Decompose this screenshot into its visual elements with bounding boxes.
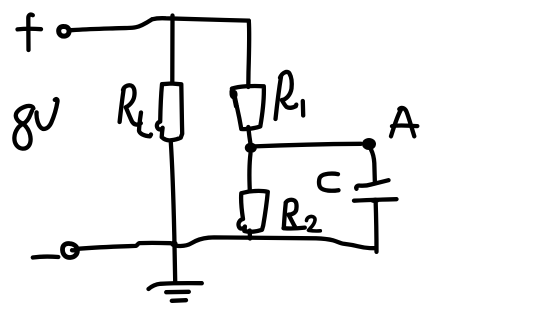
resistor R2 (box) (239, 191, 268, 232)
ground symbol (149, 283, 202, 301)
label R2 (284, 200, 321, 231)
junction: bottom rail crosses ground stem (170, 240, 177, 247)
label 8V (14, 99, 57, 149)
wire: capacitor to bottom corner (373, 200, 378, 252)
label R1 (276, 72, 304, 119)
positive terminal (open circle) (59, 26, 69, 36)
wire: top rail down to R_L (170, 16, 174, 84)
negative terminal (open loop) (62, 244, 77, 258)
wire: junction to node A (251, 144, 361, 147)
label A (391, 108, 417, 136)
wire: R1 to junction (248, 127, 251, 146)
label + (positive terminal sign) (18, 15, 42, 50)
wire: R_L bottom to bottom rail and ground stem (171, 141, 176, 282)
wire: junction down to R2 (249, 154, 250, 191)
wire: top rail corner down to R1 (246, 21, 251, 87)
resistor R1 (box) (232, 86, 264, 129)
wire: bottom rail (78, 237, 377, 248)
wire: node A down to capacitor (371, 150, 375, 184)
wire stub left of negative terminal (33, 254, 59, 259)
label C (319, 174, 339, 191)
resistor R_L (box) (157, 84, 182, 141)
wire: R2 to bottom rail (248, 231, 253, 239)
junction dot below R1 (245, 143, 257, 153)
label R_L (120, 85, 151, 136)
capacitor C top plate (356, 180, 388, 189)
wire: positive terminal to top rail (71, 19, 152, 30)
node A dot (362, 138, 376, 150)
capacitor C bottom plate (354, 199, 397, 201)
wire: top rail (152, 18, 249, 20)
